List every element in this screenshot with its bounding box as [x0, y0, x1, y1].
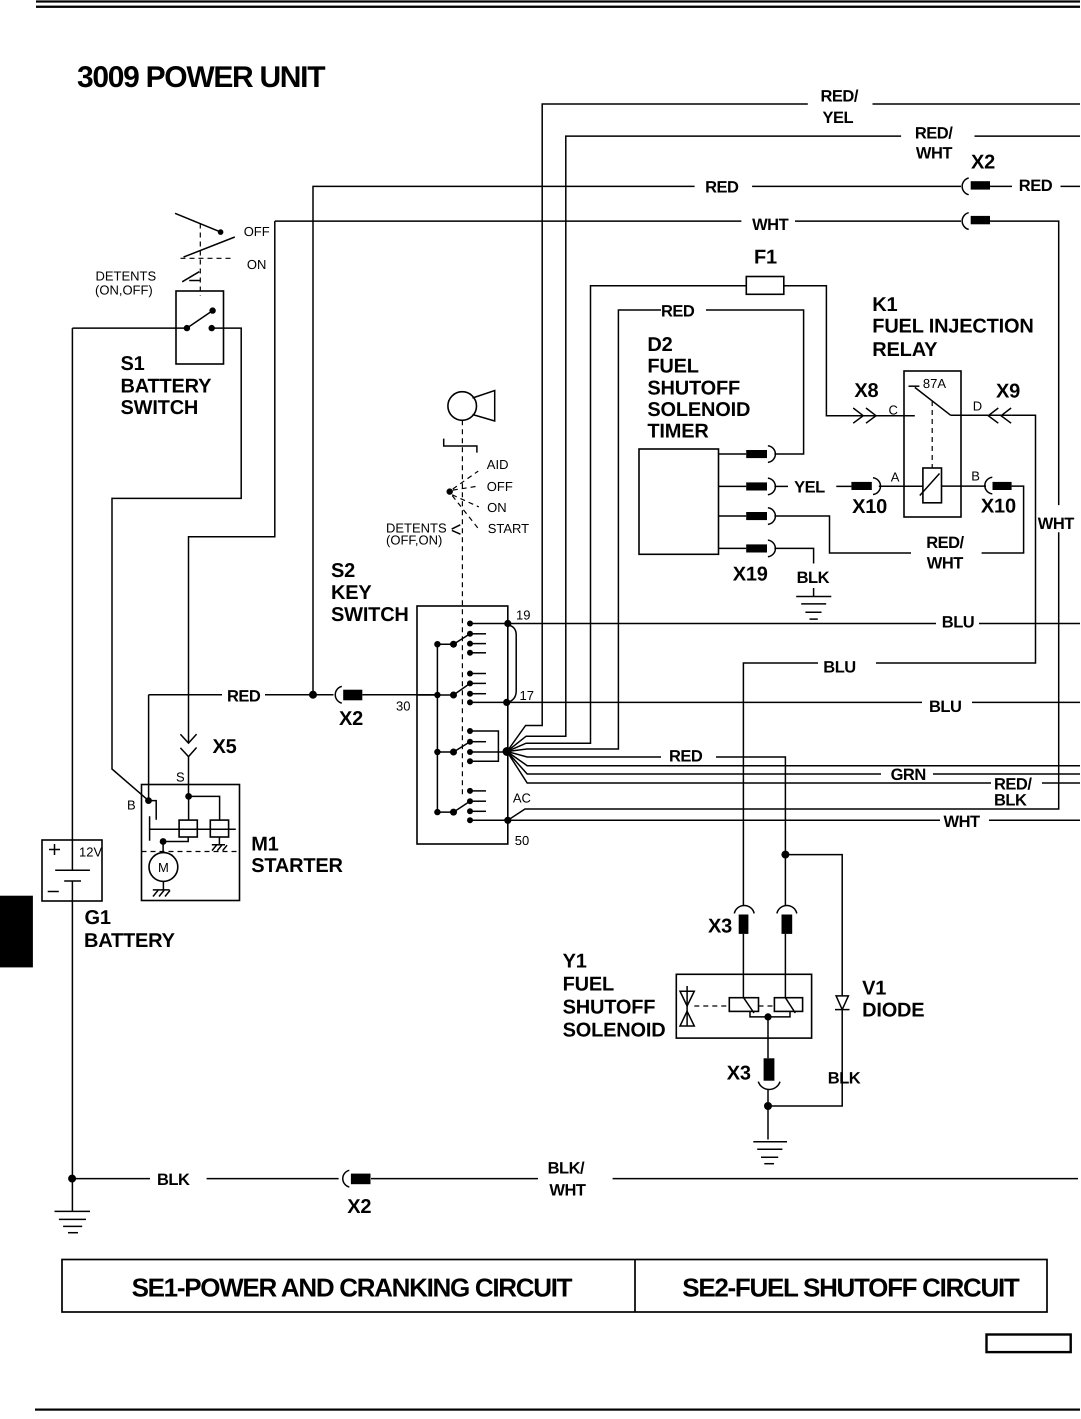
- svg-text:DIODE: DIODE: [862, 1000, 924, 1022]
- label AC: [513, 791, 531, 806]
- label RED (left of X2): [705, 179, 739, 197]
- wire WHT (key switch AC to right edge): [508, 819, 1080, 821]
- svg-text:M1: M1: [251, 834, 278, 856]
- wire RED/WHT (key switch to top right edge): [507, 136, 1080, 751]
- svg-text:B: B: [127, 798, 136, 813]
- svg-text:WHT: WHT: [1038, 515, 1074, 533]
- svg-text:B: B: [971, 469, 980, 484]
- svg-text:BLU: BLU: [942, 614, 974, 632]
- relay K1 box: [904, 371, 961, 517]
- label B (relay): [971, 469, 980, 484]
- label A: [891, 470, 900, 485]
- Y1 valve symbol: [680, 986, 694, 1026]
- wire RED/YEL (key switch to top right edge): [507, 104, 1080, 752]
- connector X5 arrows: [180, 734, 196, 757]
- S1 OFF pointer blade: [175, 213, 223, 235]
- wire RED (X2 to key switch terminal 30): [149, 695, 438, 801]
- svg-text:WHT: WHT: [916, 145, 952, 163]
- label X10 (B side): [981, 496, 1016, 518]
- svg-text:RED/: RED/: [915, 125, 953, 143]
- label BLK (X19): [797, 569, 830, 587]
- M1 solenoid coil right: [210, 820, 228, 837]
- svg-text:BATTERY: BATTERY: [121, 375, 213, 397]
- relay actuator dashed link: [931, 401, 933, 468]
- M1 internal dashed divider: [142, 851, 240, 853]
- connector X19 pin 4: [719, 540, 776, 557]
- S2 terminal 19 lead: [470, 620, 511, 627]
- label X19: [733, 564, 768, 586]
- label 87A: [923, 376, 946, 391]
- S2 rotor bus: [436, 644, 438, 812]
- svg-text:X5: X5: [213, 736, 237, 758]
- label WHT (right vertical): [1038, 515, 1074, 533]
- label S2 KEY SWITCH: [331, 560, 409, 626]
- label ON (S1): [247, 257, 267, 272]
- svg-text:SE2-FUEL SHUTOFF CIRCUIT: SE2-FUEL SHUTOFF CIRCUIT: [682, 1273, 1020, 1303]
- svg-text:SWITCH: SWITCH: [121, 397, 199, 419]
- label START: [488, 521, 529, 536]
- label AID: [487, 457, 509, 472]
- Y1 dashed actuator link: [694, 1005, 774, 1007]
- S1 contact blade and dots: [184, 307, 216, 331]
- svg-text:S1: S1: [121, 353, 145, 375]
- S2 gang 3 pivot and blade: [434, 742, 470, 756]
- S2 terminal 17 lead: [470, 699, 510, 706]
- label WHT (AC wire): [944, 813, 980, 831]
- label RED (to Y1): [669, 748, 703, 766]
- svg-text:BLK: BLK: [828, 1070, 861, 1088]
- label X2 (middle): [339, 708, 363, 730]
- svg-text:RED/: RED/: [926, 534, 964, 552]
- svg-text:G1: G1: [85, 907, 111, 929]
- svg-text:FUEL: FUEL: [563, 974, 614, 996]
- svg-text:YEL: YEL: [823, 109, 854, 127]
- svg-text:BLK: BLK: [797, 569, 830, 587]
- fuse F1: [746, 277, 784, 295]
- connector X19 pin 3: [719, 508, 776, 525]
- page bottom rule: [35, 1409, 1080, 1411]
- label X3 (lower): [727, 1063, 751, 1085]
- key switch S2 box: [417, 606, 508, 844]
- S2 gang 4 pivot and blade: [434, 801, 470, 815]
- svg-text:D2: D2: [647, 334, 672, 356]
- svg-text:M: M: [158, 860, 169, 875]
- battery G1 box: [42, 840, 102, 901]
- svg-text:X3: X3: [727, 1063, 751, 1085]
- wire D2 RED feed (key switch to D2 pin 1): [507, 310, 804, 752]
- svg-text:RELAY: RELAY: [872, 339, 938, 361]
- label RED (30 wire): [227, 688, 261, 706]
- label S1 BATTERY SWITCH: [121, 353, 213, 419]
- label WHT (top): [752, 216, 788, 234]
- label G1 BATTERY: [84, 907, 176, 952]
- wire S1 to M1 B terminal: [112, 328, 241, 800]
- wire BLU terminal 19 to right edge: [508, 623, 1080, 625]
- svg-text:FUEL: FUEL: [647, 356, 698, 378]
- junction node (Y1/V1 feed): [781, 851, 789, 859]
- wire WHT (top, through X2, down right side to key switch AC): [275, 221, 1059, 820]
- S2 gang 1 contacts: [467, 621, 486, 656]
- connector X3 lower pin: [758, 1058, 780, 1089]
- svg-text:S: S: [176, 770, 185, 785]
- svg-text:RED: RED: [227, 688, 261, 706]
- label ON (S2): [487, 500, 507, 515]
- wire RED (top, through X2 to right edge): [313, 186, 1080, 694]
- svg-text:X10: X10: [852, 496, 887, 518]
- S1 ON blade: [184, 237, 235, 257]
- label BLU (19): [942, 614, 974, 632]
- label D: [973, 399, 982, 414]
- relay 87A stub: [909, 385, 920, 387]
- Y1 coil left: [729, 998, 758, 1013]
- svg-text:RED: RED: [705, 179, 739, 197]
- page top double rule: [36, 0, 1080, 7]
- wire RED/WHT (D2 pin3 to relay coil B): [774, 486, 1023, 553]
- label X3 (upper): [708, 916, 732, 938]
- svg-text:K1: K1: [872, 294, 897, 316]
- M1 S terminal node: [185, 793, 219, 820]
- svg-text:OFF: OFF: [244, 224, 270, 239]
- svg-text:X2: X2: [347, 1196, 371, 1218]
- M1 coil chassis ground: [212, 837, 227, 851]
- connector X8 arrows: [853, 408, 876, 423]
- label OFF (S1): [244, 224, 270, 239]
- svg-text:BLK: BLK: [157, 1171, 190, 1189]
- G1 plus sign: [49, 844, 60, 855]
- label 19: [516, 608, 530, 623]
- svg-text:WHT: WHT: [927, 555, 963, 573]
- wire unlabeled (key switch to right edge): [507, 752, 1080, 766]
- battery switch S1 box: [176, 291, 224, 364]
- svg-text:WHT: WHT: [944, 813, 980, 831]
- wire battery main (S1 down through G1 to BLK junction): [71, 328, 73, 1211]
- svg-text:(OFF,ON): (OFF,ON): [386, 533, 442, 548]
- label 50: [515, 833, 529, 848]
- S1 ON dashed detent line: [181, 257, 234, 259]
- wire RED (key switch to Y1 and V1): [507, 752, 842, 1107]
- label GRN: [891, 766, 926, 784]
- M1 motor: [149, 853, 178, 882]
- label RED (right of X2): [1019, 177, 1053, 195]
- S2 detent position pointers: [447, 471, 480, 534]
- connector X19 pin 2: [719, 478, 789, 495]
- wire BLU terminal 17 to right edge: [507, 701, 1080, 703]
- connector X3 right pin: [777, 905, 797, 933]
- label RED/BLK: [994, 776, 1032, 810]
- svg-text:TIMER: TIMER: [647, 421, 709, 443]
- label BLK (V1): [828, 1070, 861, 1088]
- S2 19-17 link arc: [507, 625, 516, 702]
- svg-text:YEL: YEL: [794, 479, 825, 497]
- label RED/YEL: [821, 88, 859, 128]
- svg-text:17: 17: [520, 688, 534, 703]
- S2 gang 1 pivot and blade: [434, 634, 470, 648]
- svg-text:SHUTOFF: SHUTOFF: [563, 997, 656, 1019]
- label K1 FUEL INJECTION RELAY: [872, 294, 1033, 361]
- label C: [889, 403, 898, 418]
- wire S1 to M1 S terminal (via X5): [189, 221, 275, 796]
- starter M1 box: [142, 785, 240, 901]
- S2 gang 4 contacts: [467, 788, 486, 823]
- label X9: [996, 381, 1020, 403]
- svg-text:STARTER: STARTER: [251, 855, 343, 877]
- ground (Y1): [753, 1142, 787, 1164]
- label 30: [396, 699, 410, 714]
- svg-text:X3: X3: [708, 916, 732, 938]
- label X10 (A side): [852, 496, 887, 518]
- legend table SE1/SE2: [62, 1260, 1047, 1313]
- wire battery to S1: [72, 327, 186, 329]
- svg-text:START: START: [488, 521, 529, 536]
- label B (M1): [127, 798, 136, 813]
- svg-text:X2: X2: [971, 152, 995, 174]
- svg-text:RED/: RED/: [821, 88, 859, 106]
- label RED (D2 feed): [661, 303, 695, 321]
- label F1: [754, 247, 777, 269]
- svg-text:WHT: WHT: [752, 216, 788, 234]
- label X5: [213, 736, 237, 758]
- S1 actuator dashed stem: [199, 224, 201, 297]
- svg-text:BLU: BLU: [929, 698, 961, 716]
- label DETENTS (ON,OFF): [95, 269, 157, 298]
- label RED/WHT: [915, 125, 953, 163]
- wire YEL (D2 pin2 to relay coil A): [836, 485, 923, 487]
- relay D wire: [951, 414, 1011, 416]
- S2 terminal AC lead: [470, 817, 511, 824]
- label X2 (top): [971, 152, 995, 174]
- S2 detent bracket: [444, 439, 477, 453]
- svg-text:BLU: BLU: [823, 659, 855, 677]
- svg-text:RED: RED: [661, 303, 695, 321]
- svg-text:SWITCH: SWITCH: [331, 604, 409, 626]
- bottom right small box: [987, 1335, 1071, 1353]
- wire RED/BLK (key switch to right edge): [507, 752, 1080, 784]
- label YEL: [794, 479, 825, 497]
- S2 output junction lead: [470, 747, 512, 756]
- svg-text:X2: X2: [339, 708, 363, 730]
- svg-text:GRN: GRN: [891, 766, 926, 784]
- ground (D2 BLK): [796, 597, 831, 620]
- svg-text:BLK: BLK: [994, 792, 1027, 810]
- svg-text:RED: RED: [1019, 177, 1053, 195]
- timer D2 box: [639, 449, 719, 554]
- svg-text:87A: 87A: [923, 376, 946, 391]
- legend label SE2-FUEL SHUTOFF CIRCUIT: [682, 1273, 1020, 1303]
- svg-text:30: 30: [396, 699, 410, 714]
- svg-text:OFF: OFF: [487, 479, 513, 494]
- svg-text:ON: ON: [247, 257, 267, 272]
- key switch warning buzzer: [448, 391, 495, 422]
- connector X10 (B side): [985, 477, 1012, 494]
- svg-text:WHT: WHT: [549, 1182, 585, 1200]
- svg-text:DETENTS: DETENTS: [96, 269, 157, 284]
- svg-text:3009 POWER UNIT: 3009 POWER UNIT: [77, 61, 325, 94]
- svg-text:ON: ON: [487, 500, 507, 515]
- label X8: [854, 380, 878, 402]
- svg-text:X9: X9: [996, 381, 1020, 403]
- connector X2 pin (WHT): [962, 213, 990, 230]
- svg-text:19: 19: [516, 608, 530, 623]
- S2 gang 2 pivot and blade: [417, 683, 470, 698]
- svg-text:D: D: [973, 399, 982, 414]
- title 3009 POWER UNIT: [77, 61, 325, 94]
- M1 B terminal node: [145, 797, 156, 820]
- label DETENTS (OFF,ON): [386, 521, 447, 548]
- svg-text:RED: RED: [669, 748, 703, 766]
- svg-text:50: 50: [515, 833, 529, 848]
- svg-text:SOLENOID: SOLENOID: [563, 1020, 666, 1042]
- connector X2 pin (30 wire): [335, 686, 362, 703]
- S2 gang 2 contacts: [467, 671, 486, 706]
- svg-text:Y1: Y1: [563, 951, 587, 973]
- label 17: [520, 688, 534, 703]
- M1 motor feed: [160, 837, 188, 853]
- G1 battery plates: [55, 870, 90, 881]
- svg-text:X10: X10: [981, 496, 1016, 518]
- svg-text:BATTERY: BATTERY: [84, 930, 176, 952]
- svg-text:V1: V1: [862, 978, 886, 1000]
- svg-text:SOLENOID: SOLENOID: [647, 399, 750, 421]
- wire F1 feed (key switch to fuse to relay C): [507, 286, 915, 752]
- svg-text:BLK/: BLK/: [548, 1160, 585, 1178]
- label BLK (bottom): [157, 1171, 190, 1189]
- label D2 FUEL SHUTOFF SOLENOID TIMER: [647, 334, 750, 443]
- svg-text:FUEL INJECTION: FUEL INJECTION: [872, 316, 1033, 338]
- svg-text:X8: X8: [854, 380, 878, 402]
- M1 motor chassis ground: [153, 881, 170, 896]
- svg-text:SE1-POWER AND CRANKING CIRCUIT: SE1-POWER AND CRANKING CIRCUIT: [132, 1273, 573, 1303]
- svg-text:AID: AID: [487, 457, 509, 472]
- svg-text:AC: AC: [513, 791, 531, 806]
- Y1 common bracket: [750, 1011, 790, 1020]
- S2 actuator dashed stem: [461, 420, 463, 798]
- svg-text:C: C: [889, 403, 898, 418]
- label RED/WHT (relay B): [926, 534, 964, 573]
- G1 minus sign: [48, 891, 59, 893]
- diode V1: [835, 996, 850, 1010]
- connector X10 (A side): [851, 478, 880, 495]
- connector X2 pin (BLK): [343, 1170, 371, 1187]
- label M1 STARTER: [251, 834, 343, 878]
- label BLU (X9 wire): [823, 659, 855, 677]
- junction node (RED/30 wire): [309, 691, 317, 699]
- S2 gang 3 contacts and loop: [467, 728, 498, 764]
- label 12V: [79, 845, 102, 860]
- svg-text:X19: X19: [733, 564, 768, 586]
- wire BLK / BLK-WHT bottom: [72, 1178, 1078, 1180]
- svg-text:(ON,OFF): (ON,OFF): [95, 283, 153, 298]
- label X2 (bottom): [347, 1196, 371, 1218]
- label BLU (17): [929, 698, 961, 716]
- left margin black square: [0, 896, 33, 968]
- wire GRN (key switch to right edge): [507, 752, 1080, 775]
- relay coil K1: [920, 468, 942, 503]
- connector X2 pin (RED): [962, 178, 990, 195]
- label V1 DIODE: [862, 978, 924, 1022]
- svg-text:F1: F1: [754, 247, 777, 269]
- junction node (Y1 ground): [764, 1102, 772, 1110]
- wire Y1 common to ground: [767, 1017, 769, 1140]
- ground (battery): [55, 1211, 91, 1232]
- label S (M1): [176, 770, 185, 785]
- relay blade 87A-D: [915, 387, 951, 415]
- connector X3 left pin: [734, 905, 754, 933]
- connector X9 arrows: [988, 408, 1011, 423]
- svg-text:A: A: [891, 470, 900, 485]
- M1 solenoid coil left: [179, 820, 197, 837]
- svg-text:S2: S2: [331, 560, 355, 582]
- label OFF (S2): [487, 479, 513, 494]
- Y1 coil right: [774, 998, 802, 1013]
- solenoid Y1 box: [676, 974, 811, 1038]
- wire BLK (D2 pin4 to ground): [774, 548, 813, 596]
- M1 contact plate: [150, 816, 236, 841]
- connector X19 pin 1: [719, 446, 776, 463]
- legend label SE1-POWER AND CRANKING CIRCUIT: [132, 1273, 573, 1303]
- label BLK/WHT: [548, 1160, 586, 1200]
- wire BLU relay D/X9 to Y1 left coil: [743, 415, 1035, 997]
- junction node (battery/BLK): [68, 1175, 76, 1183]
- label Y1 FUEL SHUTOFF SOLENOID: [563, 951, 666, 1042]
- relay B wire: [942, 485, 987, 487]
- S1 detent pointer triangle: [182, 272, 200, 282]
- svg-text:SHUTOFF: SHUTOFF: [647, 377, 740, 399]
- svg-text:12V: 12V: [79, 845, 102, 860]
- svg-text:KEY: KEY: [331, 582, 372, 604]
